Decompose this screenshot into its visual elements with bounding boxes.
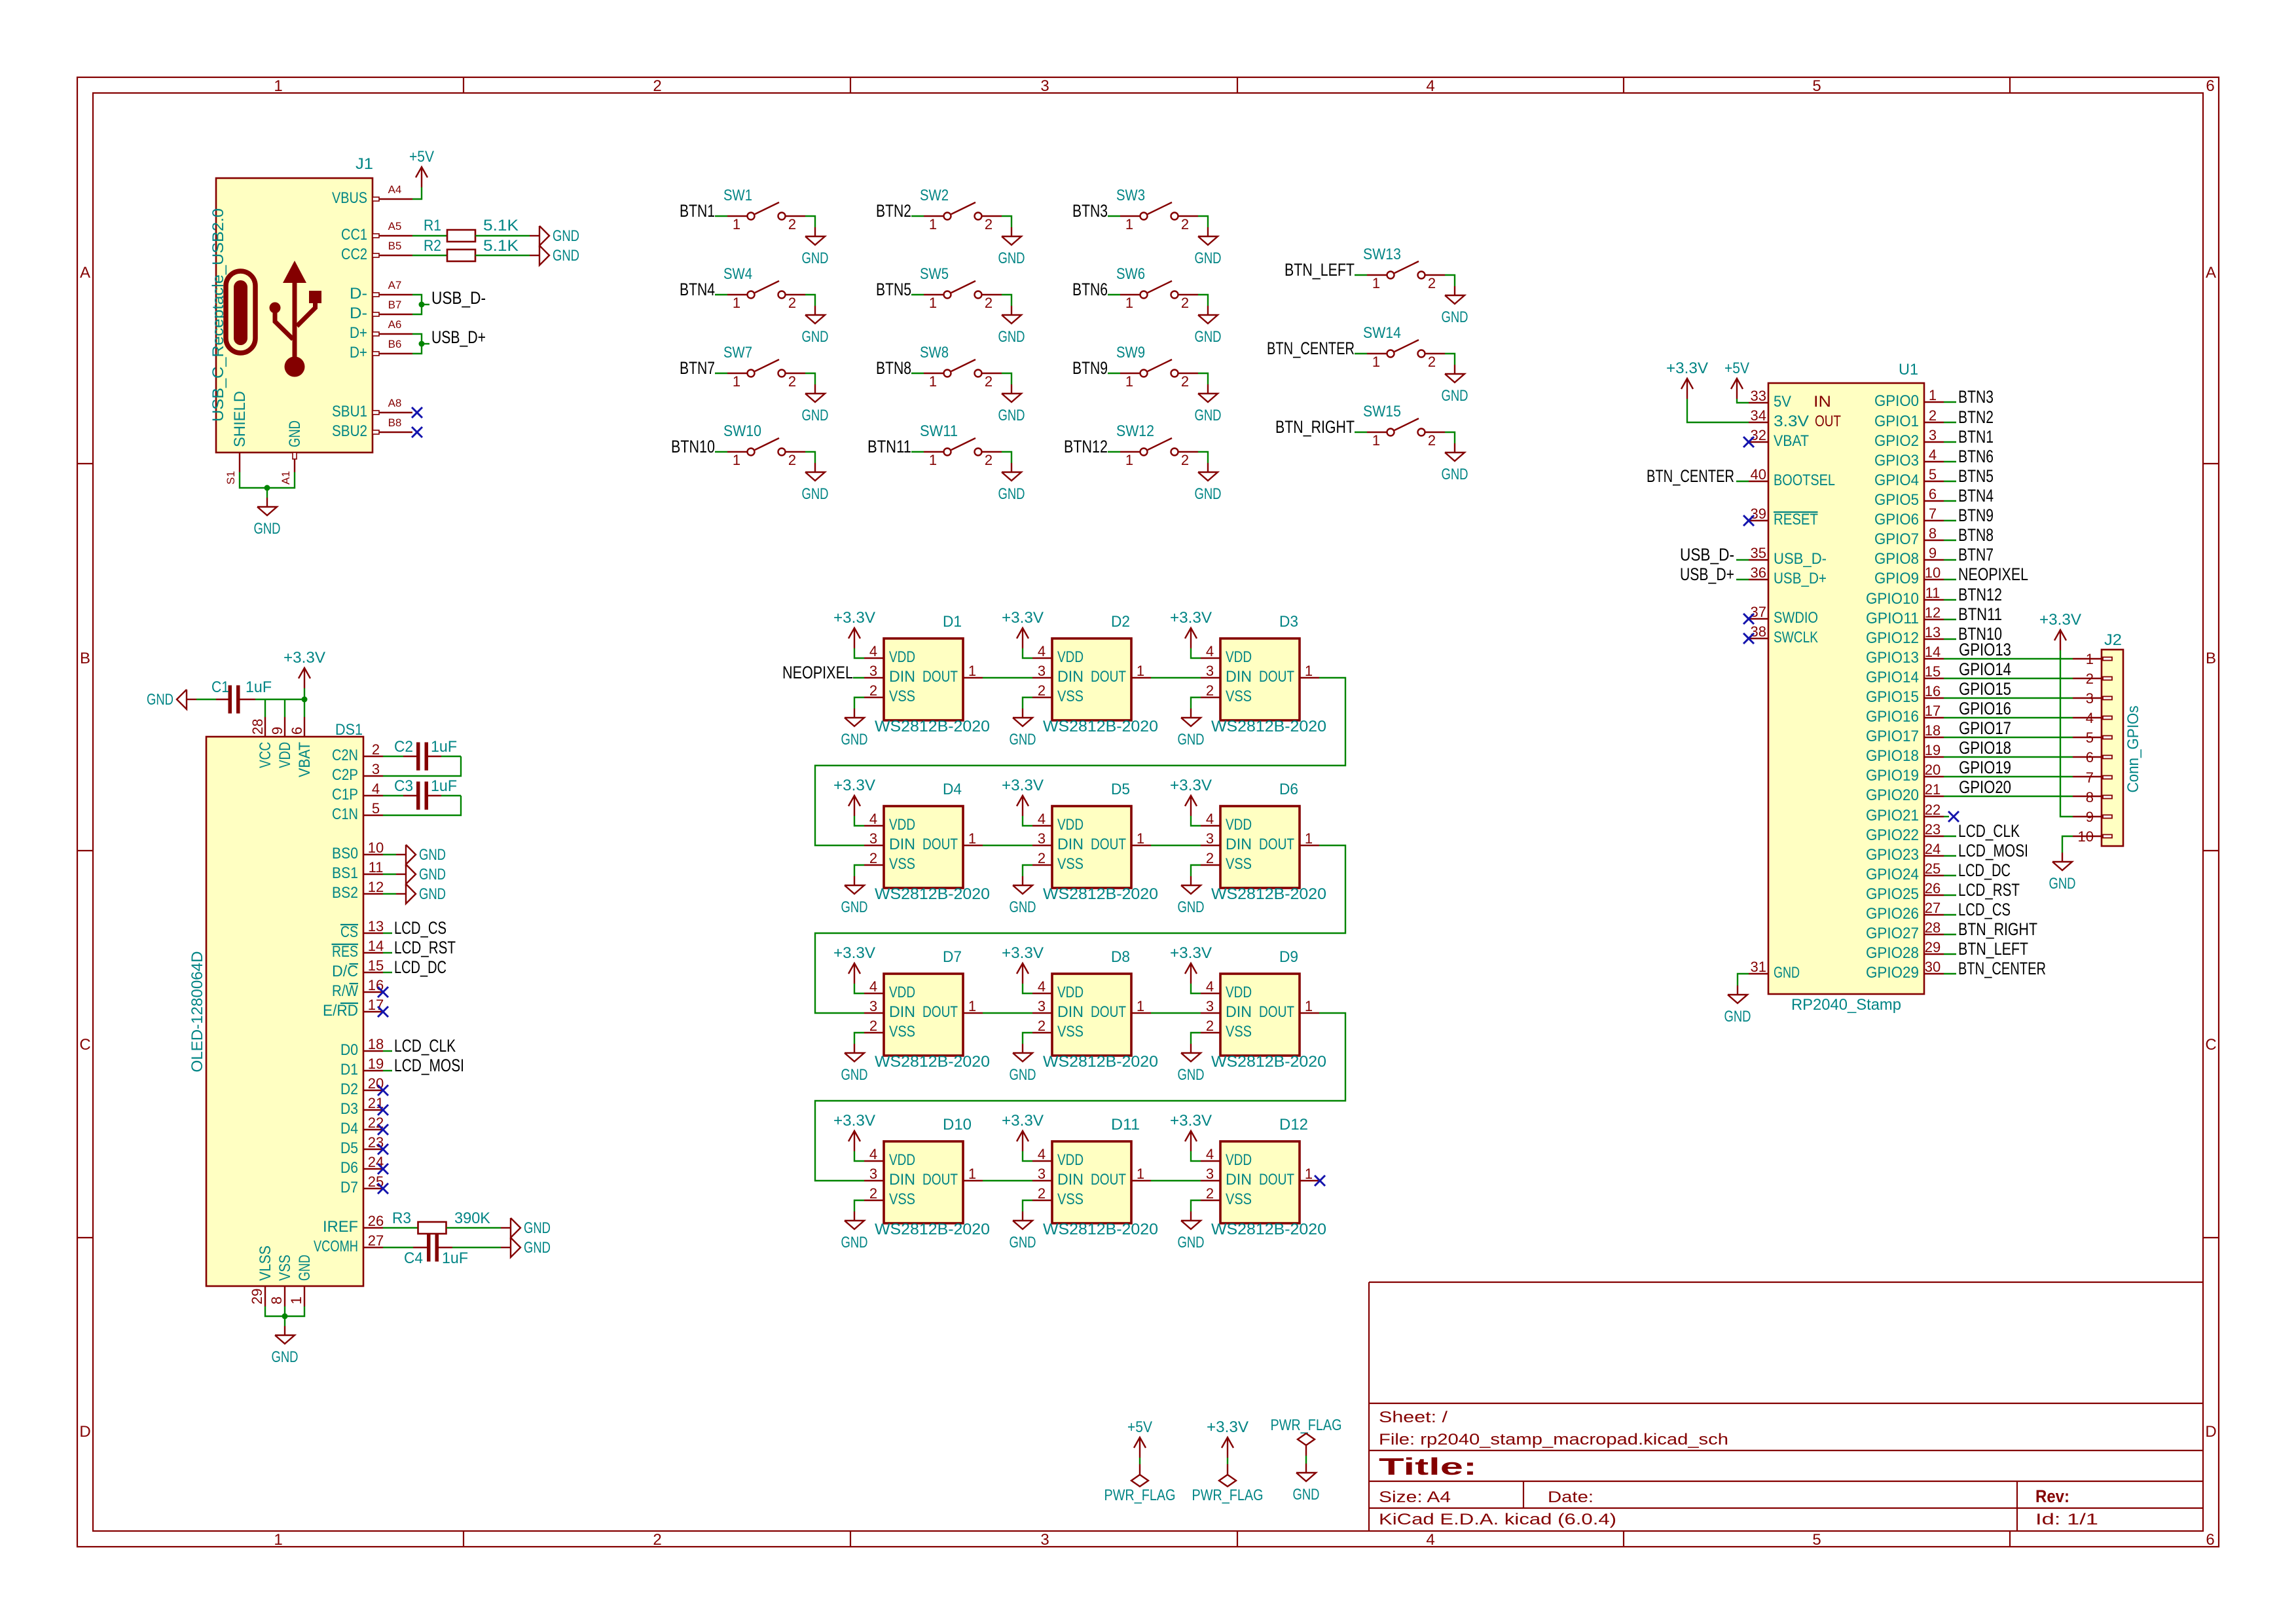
wire D8 VSS to GND [1023,1033,1032,1044]
U1 pin 36 USB_D+ [1749,579,1768,580]
ground GND at D7 [854,1044,855,1053]
wire C1 to GND [196,699,216,700]
ground GND at D5 [1022,876,1023,885]
svg-text:R1: R1 [424,217,441,234]
svg-text:GND: GND [419,885,446,903]
svg-text:BTN6: BTN6 [1958,447,1994,466]
svg-text:USB_D+: USB_D+ [431,327,486,347]
svg-text:4: 4 [1426,1531,1434,1549]
svg-text:C3: C3 [394,777,413,795]
D9 pin 2 VSS [1201,1032,1220,1033]
svg-text:CC1: CC1 [341,226,367,244]
wire SW3 pin2 to GND [1198,216,1208,227]
no-connect U1 left y=795 [1743,515,1754,526]
wire D11 VDD to +3.3V [1023,1151,1032,1161]
svg-text:DIN: DIN [1057,668,1084,686]
wire U1 GND pin to ground [1738,974,1749,986]
svg-text:17: 17 [1925,703,1941,719]
power symbol +3.3V at D5 [1022,796,1023,816]
wire D3 VDD to +3.3V [1191,648,1201,658]
svg-text:+3.3V: +3.3V [833,777,875,794]
svg-text:7: 7 [2086,769,2094,786]
capacitor C2 [383,756,403,757]
frame row tick y=1299 [77,850,93,851]
J1 pin S1 SHIELD [239,452,240,472]
svg-text:D5: D5 [340,1139,358,1157]
svg-text:GND: GND [998,485,1025,503]
ground GND at R2 [530,255,539,256]
J1 USB-C pill icon [226,271,255,353]
svg-text:GPIO10: GPIO10 [1866,590,1919,608]
svg-text:9: 9 [1929,545,1937,561]
LED D6 WS2812B-2020 body [1220,806,1300,888]
ground GND at BS pin [396,893,406,895]
D5 pin 4 VDD [1032,825,1052,826]
wire D10 DOUT to D11 DIN [983,1180,1032,1181]
wire SW13 pin2 to GND [1445,275,1455,286]
power symbol +3.3V at D9 [1190,963,1192,984]
resistor R2 [447,249,475,261]
DS1 pin 18 D0 [363,1050,383,1052]
resistor R1 [447,230,475,242]
D3 pin 3 DIN [1201,677,1220,678]
U1 pin 23 GPIO22 [1924,836,1944,837]
svg-text:1: 1 [968,663,976,679]
svg-text:GPIO20: GPIO20 [1959,777,2011,797]
LED D11 WS2812B-2020 body [1052,1141,1131,1223]
svg-text:1: 1 [288,1297,304,1304]
net label BTN11 [1944,619,1956,620]
svg-text:15: 15 [1925,663,1941,680]
svg-text:SW9: SW9 [1116,344,1145,361]
svg-text:VSS: VSS [1057,1023,1084,1041]
svg-text:12: 12 [368,879,384,895]
D7 pin 4 VDD [864,993,884,994]
svg-text:DIN: DIN [1226,668,1252,686]
U1 pin 40 BOOTSEL [1749,481,1768,482]
svg-text:GND: GND [1442,466,1468,483]
svg-text:D+: D+ [350,324,367,342]
power symbol +3.3V at D11 [1022,1131,1023,1151]
svg-text:SW12: SW12 [1116,422,1154,440]
svg-text:GPIO8: GPIO8 [1874,550,1919,568]
wire D2 DOUT to D3 DIN [1151,677,1201,678]
power flag PWR_FLAG on +3.3V [1227,1464,1228,1475]
DS1 pin 26 IREF [363,1227,383,1228]
net label BTN3 [1944,401,1956,403]
svg-text:6: 6 [1929,486,1937,502]
svg-text:LCD_CS: LCD_CS [1958,900,2011,919]
svg-text:DIN: DIN [1057,836,1084,853]
svg-text:GPIO7: GPIO7 [1874,530,1919,548]
svg-text:GND: GND [553,247,579,265]
svg-text:GND: GND [1774,964,1800,982]
svg-text:DOUT: DOUT [922,668,958,686]
svg-text:4: 4 [1206,811,1214,827]
D6 pin 1 DOUT [1300,845,1319,846]
svg-text:SW8: SW8 [920,344,949,361]
svg-text:SW3: SW3 [1116,187,1145,204]
svg-text:D-: D- [350,304,367,322]
J1 pin B6 D+ [373,353,412,354]
svg-text:D12: D12 [1279,1116,1308,1134]
svg-text:1: 1 [1125,295,1133,311]
svg-text:VBAT: VBAT [1774,432,1809,450]
svg-text:VSS: VSS [1226,688,1252,705]
wire D11 DOUT to D12 DIN [1151,1180,1201,1181]
svg-text:Conn_GPIOs: Conn_GPIOs [2124,706,2142,793]
svg-text:3: 3 [869,998,877,1014]
svg-text:GPIO17: GPIO17 [1866,728,1919,745]
svg-text:A: A [2206,264,2216,282]
svg-text:1: 1 [929,216,937,232]
svg-text:VDD: VDD [1226,984,1252,1001]
svg-text:+3.3V: +3.3V [1207,1418,1248,1436]
svg-text:LCD_RST: LCD_RST [1958,880,2020,900]
svg-text:1: 1 [1137,663,1144,679]
ground GND at SW10 [814,463,816,472]
DS1 pin 15 D/C [363,972,383,973]
svg-text:18: 18 [1925,722,1941,739]
svg-text:20: 20 [1925,762,1941,778]
U1 pin 26 GPIO25 [1924,895,1944,896]
svg-text:SW5: SW5 [920,265,949,283]
no-connect U1 left y=975 [1743,633,1754,644]
svg-text:Rev:: Rev: [2035,1486,2069,1506]
wire C4 to GND [452,1247,501,1248]
svg-text:13: 13 [368,918,384,934]
svg-text:2: 2 [788,216,796,232]
junction at J1 ground [264,485,270,491]
svg-text:28: 28 [249,719,266,735]
power symbol +5V at U1 [1736,378,1738,399]
svg-text:36: 36 [1751,564,1766,581]
svg-text:DOUT: DOUT [1091,836,1126,853]
net label LCD_CLK [1944,836,1956,837]
svg-text:Size: A4: Size: A4 [1379,1488,1451,1506]
svg-text:6: 6 [2206,77,2214,95]
svg-text:2: 2 [985,295,993,311]
svg-text:BTN5: BTN5 [876,280,911,299]
DS1 pin 27 VCOMH [363,1247,383,1248]
svg-text:+3.3V: +3.3V [833,609,875,627]
svg-text:27: 27 [1925,900,1941,916]
svg-text:WS2812B-2020: WS2812B-2020 [1211,1053,1326,1071]
svg-text:GND: GND [1724,1008,1751,1025]
ground GND at D2 [1022,709,1023,718]
D8 pin 1 DOUT [1131,1012,1151,1014]
U1 pin 5 GPIO4 [1924,481,1944,482]
svg-text:1: 1 [1305,1166,1313,1182]
svg-text:6: 6 [289,727,305,735]
svg-text:1: 1 [929,295,937,311]
DS1 pin 6 VBAT [304,717,305,737]
svg-text:BTN11: BTN11 [867,437,911,456]
svg-text:DOUT: DOUT [922,836,958,853]
svg-text:3: 3 [372,761,380,777]
svg-text:19: 19 [1925,742,1941,758]
net label USB_D- at U1 [1736,559,1749,561]
svg-text:D1: D1 [943,613,962,631]
svg-text:GND: GND [1010,1234,1036,1251]
no-connect at D12 DOUT [1315,1175,1325,1186]
svg-text:VDD: VDD [1226,816,1252,834]
D1 pin 3 DIN [864,677,884,678]
svg-text:1: 1 [968,830,976,847]
svg-text:Sheet: /: Sheet: / [1379,1409,1448,1426]
D6 pin 4 VDD [1201,825,1220,826]
J2 pin 2 [2103,677,2112,680]
svg-text:1: 1 [733,295,740,311]
DS1 pin 14 RES [363,952,383,953]
svg-text:9: 9 [269,727,285,735]
svg-text:3: 3 [1040,1531,1049,1549]
ground GND at SW7 [814,384,816,394]
svg-text:D11: D11 [1111,1116,1140,1134]
svg-text:390K: 390K [454,1209,490,1227]
svg-text:2: 2 [1038,1185,1046,1202]
wire D7 VSS to GND [854,1033,864,1044]
D5 pin 1 DOUT [1131,845,1151,846]
power symbol +3.3V at D4 [854,796,855,816]
net label LCD_DC [383,972,392,973]
power symbol +3.3V at DS1 [304,668,305,688]
no-connect GPIO21 [1944,816,1949,817]
frame row tick y=1890 [77,1237,93,1238]
svg-text:USB_D-: USB_D- [1774,550,1827,568]
svg-text:BTN3: BTN3 [1072,201,1108,221]
U1 pin 17 GPIO16 [1924,717,1944,718]
svg-text:GND: GND [272,1348,299,1366]
svg-text:14: 14 [368,938,384,954]
svg-text:GPIO19: GPIO19 [1959,758,2011,777]
svg-text:OLED-1280064D: OLED-1280064D [189,951,206,1073]
U1 pin 7 GPIO6 [1924,520,1944,521]
svg-text:1: 1 [968,1166,976,1182]
wire D7 VDD to +3.3V [854,984,864,993]
D8 pin 4 VDD [1032,993,1052,994]
net label LCD_CS [383,932,392,934]
net label BTN_RIGHT [1944,934,1956,935]
J2 pin 7 [2103,776,2112,779]
svg-text:SBU2: SBU2 [332,422,367,440]
J1 pin B7 D- [373,314,412,315]
ground GND at SW9 [1207,384,1209,394]
svg-text:GPIO13: GPIO13 [1959,640,2011,659]
DS1 pin 20 D2 [363,1090,383,1091]
svg-text:D2: D2 [340,1080,358,1098]
U1 pin 27 GPIO26 [1924,914,1944,915]
svg-text:+3.3V: +3.3V [1170,609,1212,627]
svg-text:D0: D0 [340,1041,358,1059]
power symbol +3.3V at D2 [1022,628,1023,648]
J1 pin A4 VBUS [373,198,412,200]
LED D9 WS2812B-2020 body [1220,974,1300,1056]
svg-text:USB_D+: USB_D+ [1774,570,1827,587]
junction at USB_D- [419,302,425,308]
svg-text:2: 2 [985,452,993,468]
svg-text:GND: GND [802,249,829,267]
svg-text:BTN_RIGHT: BTN_RIGHT [1958,919,2037,939]
net label BTN_CENTER [1944,973,1956,974]
power symbol +3.3V at D10 [854,1131,855,1151]
svg-text:16: 16 [1925,683,1941,699]
D12 pin 4 VDD [1201,1160,1220,1162]
wire SW4 pin2 to GND [805,295,815,306]
U1 pin 24 GPIO23 [1924,855,1944,857]
svg-text:VSS: VSS [889,1190,915,1208]
DS1 pin 21 D3 [363,1109,383,1111]
svg-text:+3.3V: +3.3V [283,649,325,667]
net label LCD_MOSI [1944,855,1956,857]
wire GPIO15 to J2 pin 3 [1944,697,2073,699]
svg-text:WS2812B-2020: WS2812B-2020 [1043,885,1158,903]
svg-text:3: 3 [1038,663,1046,679]
wire D1 DOUT to D2 DIN [983,677,1032,678]
wire SW5 pin2 to GND [1002,295,1011,306]
wire D3 VSS to GND [1191,697,1201,709]
svg-text:26: 26 [368,1213,384,1229]
svg-text:RES: RES [332,943,358,961]
no-connect R/W [378,987,388,997]
svg-text:1: 1 [1137,1166,1144,1182]
wire D9 DOUT wrap to D10 DIN [815,1013,1345,1181]
D4 pin 3 DIN [864,845,884,846]
wire BS to GND y=1365 [383,893,396,895]
svg-text:1uF: 1uF [431,777,457,795]
power symbol +3.3V at J2 [2060,630,2061,650]
no-connect U1 left y=675 [1743,437,1754,447]
wire CC1 to R1 [412,235,447,236]
svg-text:WS2812B-2020: WS2812B-2020 [1043,718,1158,735]
wire GPIO17 to J2 pin 5 [1944,737,2073,738]
svg-text:1: 1 [1929,387,1937,403]
svg-text:SW7: SW7 [723,344,752,361]
svg-text:+5V: +5V [1724,360,1749,377]
J2 pin 5 [2103,736,2112,739]
D8 pin 3 DIN [1032,1012,1052,1014]
J1 pin A7 D- [373,294,412,295]
svg-text:VDD: VDD [276,742,294,768]
svg-text:SW2: SW2 [920,187,949,204]
ground GND at SW2 [1011,227,1012,236]
svg-text:2: 2 [788,452,796,468]
D3 pin 1 DOUT [1300,677,1319,678]
svg-text:VSS: VSS [1057,1190,1084,1208]
svg-text:D6: D6 [1279,781,1298,798]
svg-text:2: 2 [985,216,993,232]
D2 pin 2 VSS [1032,697,1052,698]
U1 pin 13 GPIO12 [1924,638,1944,640]
U1 pin 37 SWDIO [1749,618,1768,619]
svg-text:C: C [79,1036,90,1054]
svg-text:2: 2 [653,77,661,95]
svg-text:WS2812B-2020: WS2812B-2020 [875,1053,990,1071]
svg-text:SBU1: SBU1 [332,403,367,420]
U1 pin 38 SWCLK [1749,638,1768,639]
svg-text:3: 3 [1206,830,1214,847]
svg-text:DIN: DIN [1057,1171,1084,1189]
svg-text:2: 2 [653,1531,661,1549]
frame column tick x=1299 [850,77,851,93]
svg-text:VDD: VDD [1226,648,1252,666]
svg-text:15: 15 [368,957,384,974]
svg-text:WS2812B-2020: WS2812B-2020 [875,885,990,903]
svg-text:6: 6 [2086,749,2094,766]
ground GND at PWR_FLAG [1305,1464,1307,1473]
svg-text:2: 2 [1181,295,1189,311]
svg-text:VDD: VDD [1057,984,1084,1001]
svg-text:13: 13 [1925,624,1941,640]
svg-text:GND: GND [2049,875,2076,893]
wire SW15 pin2 to GND [1445,432,1455,443]
svg-text:1: 1 [1125,373,1133,390]
ground GND at SW13 [1454,286,1455,295]
svg-text:GND: GND [1010,731,1036,748]
svg-text:LCD_CLK: LCD_CLK [394,1036,456,1056]
svg-text:DOUT: DOUT [922,1171,958,1189]
svg-text:2: 2 [869,682,877,699]
svg-text:2: 2 [869,850,877,866]
DS1 pin 19 D1 [363,1070,383,1071]
power symbol +3.3V at D8 [1022,963,1023,984]
svg-text:WS2812B-2020: WS2812B-2020 [1211,885,1326,903]
svg-text:BOOTSEL: BOOTSEL [1774,471,1835,489]
svg-text:GND: GND [998,328,1025,346]
svg-text:CS: CS [340,923,358,941]
U1 pin 8 GPIO7 [1924,540,1944,541]
net label BTN_LEFT [1944,953,1956,955]
DS1 pin 11 BS1 [363,874,383,875]
ground GND at SW6 [1207,306,1209,315]
D3 pin 2 VSS [1201,697,1220,698]
svg-text:D2: D2 [1111,613,1130,631]
svg-text:GND: GND [998,249,1025,267]
svg-text:Id: 1/1: Id: 1/1 [2035,1511,2098,1528]
svg-text:VBAT: VBAT [296,742,314,777]
svg-text:2: 2 [869,1185,877,1202]
svg-text:32: 32 [1751,427,1766,443]
svg-text:33: 33 [1751,388,1766,404]
svg-text:BTN9: BTN9 [1958,506,1994,525]
svg-text:File: rp2040_stamp_macropad.ki: File: rp2040_stamp_macropad.kicad_sch [1379,1431,1728,1449]
svg-text:5.1K: 5.1K [483,237,519,255]
ground GND at SW5 [1011,306,1012,315]
no-connect D6 [378,1164,388,1174]
svg-text:C2P: C2P [332,766,358,784]
DS1 pin 28 VCC [264,717,266,737]
svg-text:+3.3V: +3.3V [1002,1112,1044,1130]
U1 pin 28 GPIO27 [1924,934,1944,935]
svg-text:IREF: IREF [323,1218,358,1236]
DS1 pin 2 C2N [363,756,383,757]
DS1 pin 22 D4 [363,1129,383,1130]
U1 pin 3 GPIO2 [1924,441,1944,443]
D10 pin 3 DIN [864,1180,884,1181]
J2 pin 4 [2103,716,2112,720]
power flag PWR_FLAG on +5V [1139,1464,1140,1475]
svg-text:DIN: DIN [889,836,915,853]
ground GND at C4 [501,1247,511,1248]
ground GND at SW11 [1011,463,1012,472]
U1 pin 14 GPIO13 [1924,658,1944,659]
D11 pin 4 VDD [1032,1160,1052,1162]
svg-text:GND: GND [1195,485,1222,503]
svg-text:BTN1: BTN1 [1958,427,1994,447]
wire C1 net to VCC/VDD/VBAT [255,699,305,700]
svg-text:1: 1 [1137,998,1144,1014]
svg-text:4: 4 [1038,1146,1046,1162]
